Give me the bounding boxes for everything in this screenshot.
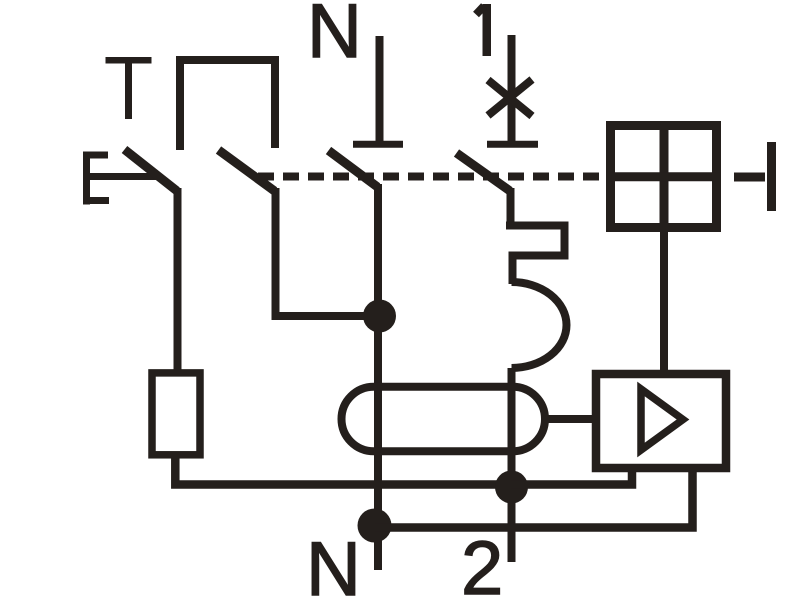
neutral terminal bar: [353, 141, 403, 148]
label T (test button): [106, 57, 152, 119]
terminal E: [83, 152, 157, 205]
contact blade A (test contact): [125, 150, 178, 192]
test button S1 bridge: [180, 60, 275, 150]
mechanical linkage (dashed): [258, 173, 606, 181]
svg-text:N: N: [306, 527, 361, 600]
contact blade C: [457, 153, 511, 191]
wire resistor to node C: [175, 455, 511, 485]
amplifier triangle: [641, 389, 683, 450]
node B (junction dot): [358, 509, 392, 543]
resistor R1 (test resistor): [152, 373, 200, 455]
line terminal bar: [487, 141, 538, 148]
handle wire: [734, 173, 765, 182]
svg-text:N: N: [307, 0, 362, 74]
line wire down to terminal 2: [508, 368, 516, 562]
node A (junction dot): [363, 300, 396, 333]
handle bar: [767, 142, 776, 211]
label 1: [483, 4, 492, 56]
amplifier U1 box: [596, 374, 726, 468]
line input wire: [508, 35, 516, 144]
node C (junction dot): [495, 471, 528, 504]
wire blade C to trip element: [507, 188, 515, 226]
breaker symbol X: [488, 80, 532, 117]
trip mechanism box with cross: [610, 126, 717, 228]
magnetic trip coil: [512, 282, 567, 368]
wire mechanism to amplifier: [660, 230, 668, 372]
thermal trip element: [506, 226, 565, 285]
wire node B to amplifier: [375, 466, 693, 528]
contact blade B: [219, 150, 275, 191]
contact blade N: [329, 151, 378, 188]
svg-text:2: 2: [461, 526, 503, 600]
wire toroid to amplifier: [545, 415, 594, 423]
wire blade A to resistor: [174, 188, 182, 370]
wire blade B to node A: [276, 188, 379, 316]
wire node C to amplifier: [511, 466, 632, 485]
current transformer toroid: [342, 387, 546, 452]
neutral input wire: [376, 36, 384, 144]
neutral wire down: [374, 184, 382, 570]
